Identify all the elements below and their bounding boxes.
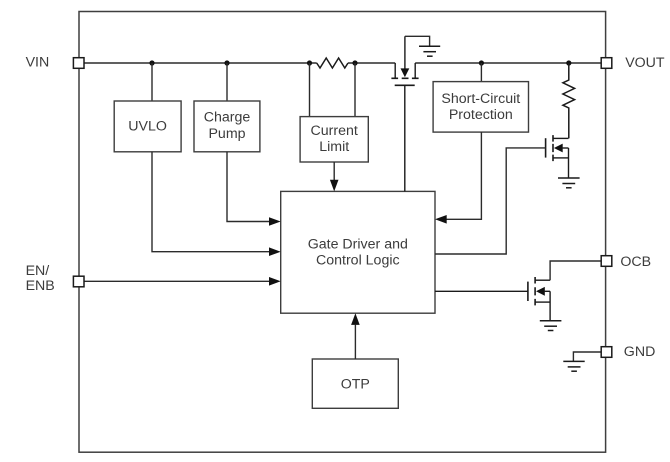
pin VOUT xyxy=(601,58,612,69)
arrow UVLO into Gate Driver xyxy=(269,247,281,256)
channel segments xyxy=(534,277,536,305)
arrow SCP into Gate Driver xyxy=(435,215,447,224)
svg-text:OTP: OTP xyxy=(341,376,370,392)
arrow EN into Gate Driver xyxy=(269,277,281,286)
ground (substrate, top) xyxy=(419,46,440,56)
ground (discharge FET source) xyxy=(558,178,580,188)
drain stub xyxy=(535,279,550,281)
resistor (VOUT discharge, vertical) xyxy=(563,63,575,138)
channel segments xyxy=(552,135,554,161)
source/body down wire xyxy=(568,148,570,178)
wire Current Limit output down xyxy=(333,162,335,180)
source stub xyxy=(553,157,569,159)
svg-text:Charge: Charge xyxy=(204,110,251,126)
wire GND pin to ground xyxy=(573,352,601,361)
svg-text:Control Logic: Control Logic xyxy=(316,252,400,268)
wire UVLO output to Gate Driver xyxy=(152,152,270,252)
ground (OCB FET source) xyxy=(540,321,562,331)
block Gate Driver and Control Logic xyxy=(281,191,435,313)
arrow Charge Pump into Gate Driver xyxy=(269,217,281,226)
pin EN/ENB xyxy=(73,276,84,287)
wire OCB FET drain to OCB pin xyxy=(550,261,601,280)
wire body to substrate ground xyxy=(405,36,430,46)
svg-text:Short-Circuit: Short-Circuit xyxy=(441,91,520,107)
wire Short-Circuit Protection input drop xyxy=(480,63,482,82)
svg-text:UVLO: UVLO xyxy=(128,119,167,135)
transistor discharge FET (right, gate left) xyxy=(546,135,569,178)
wire Charge Pump output to Gate Driver xyxy=(227,152,270,222)
svg-text:Gate Driver and: Gate Driver and xyxy=(308,236,408,252)
svg-text:Current: Current xyxy=(311,123,358,139)
wire OTP output up xyxy=(354,325,356,359)
source/body down wire xyxy=(549,291,551,320)
gate wire to Gate Driver xyxy=(404,85,406,191)
wire Current Limit left sense drop xyxy=(309,63,311,117)
svg-text:VOUT: VOUT xyxy=(625,55,665,71)
body arrow xyxy=(554,144,563,153)
arrow Current Limit into Gate Driver xyxy=(330,180,339,192)
arrow OTP into Gate Driver xyxy=(351,313,360,325)
channel segments xyxy=(391,77,418,79)
svg-text:VIN: VIN xyxy=(26,55,50,71)
junction node at VOUT discharge tap xyxy=(566,60,571,65)
pin OCB xyxy=(601,256,612,267)
wire VIN rail (left of resistor) xyxy=(84,62,316,64)
block Charge Pump xyxy=(194,101,260,152)
gate bar xyxy=(395,84,415,86)
wire Current Limit right sense drop xyxy=(354,63,356,117)
svg-text:Pump: Pump xyxy=(208,126,245,142)
pin VIN xyxy=(73,58,84,69)
junction node at resistor left xyxy=(307,60,312,65)
drain rise xyxy=(414,63,416,78)
junction node at resistor right xyxy=(352,60,357,65)
gate bar xyxy=(545,138,547,157)
body arrow xyxy=(536,287,545,296)
block OTP xyxy=(312,359,398,408)
svg-text:ENB: ENB xyxy=(26,278,55,294)
wire EN/ENB to Gate Driver xyxy=(84,280,269,282)
resistor (current sense, horizontal) xyxy=(317,58,348,68)
transistor OCB FET (right lower, gate left) xyxy=(435,277,550,321)
junction node at SCP tap xyxy=(479,60,484,65)
wire rail pass FET drain to VOUT pin xyxy=(415,62,601,64)
svg-text:Limit: Limit xyxy=(319,139,349,155)
wire Charge Pump input drop xyxy=(226,63,228,101)
IC boundary xyxy=(79,12,606,453)
junction node at Charge Pump tap xyxy=(224,60,229,65)
gate wire from Gate Driver xyxy=(435,290,528,292)
wire Short-Circuit Protection output to Gate Driver xyxy=(446,132,481,219)
wire discharge FET gate from Gate Driver xyxy=(435,148,546,254)
body wire xyxy=(544,290,550,292)
junction node at UVLO tap xyxy=(149,60,154,65)
body wire xyxy=(562,147,569,149)
svg-text:Protection: Protection xyxy=(449,107,513,123)
gate bar xyxy=(527,282,529,301)
source stub xyxy=(535,301,550,303)
body wire xyxy=(404,36,406,69)
body arrow xyxy=(401,68,410,77)
pin GND xyxy=(601,347,612,358)
svg-text:EN/: EN/ xyxy=(26,263,50,279)
transistor pass FET (N-ch, top center) xyxy=(391,36,418,191)
block Current Limit xyxy=(300,117,368,162)
block UVLO xyxy=(114,101,181,152)
svg-text:GND: GND xyxy=(624,344,656,360)
block Short-Circuit Protection xyxy=(433,82,528,133)
source drop xyxy=(394,63,396,78)
ground (GND pin) xyxy=(563,361,584,371)
svg-text:OCB: OCB xyxy=(620,254,651,270)
drain stub xyxy=(553,137,569,139)
wire UVLO input drop xyxy=(151,63,153,101)
wire rail resistor to pass FET source xyxy=(348,62,395,64)
